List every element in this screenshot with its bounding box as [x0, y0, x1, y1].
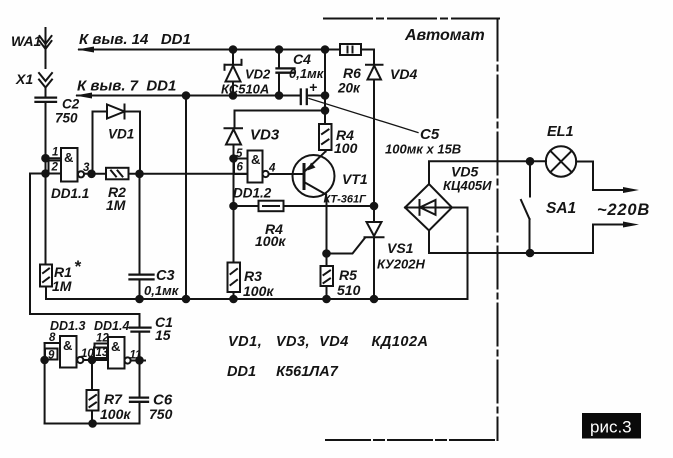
- svg-text:R5: R5: [339, 267, 357, 283]
- thyristor VS1: [327, 206, 384, 299]
- wire bridge right to x467: [452, 207, 468, 209]
- pin 6 box: [234, 159, 248, 175]
- wire DD1.4 out to C1/C6 vertical: [131, 360, 145, 362]
- svg-text:КТ-361Г: КТ-361Г: [324, 194, 368, 206]
- svg-text:рис.3: рис.3: [590, 418, 632, 437]
- wire DD1.3 out to DD1.4 in: [83, 359, 108, 361]
- resistor R2: [106, 168, 129, 180]
- svg-text:DD1.3: DD1.3: [50, 319, 85, 333]
- wire left branch to C1: [30, 313, 140, 315]
- wire C5 to node: [307, 95, 325, 97]
- svg-text:C4: C4: [293, 51, 311, 67]
- svg-text:КУ202Н: КУ202Н: [377, 257, 425, 272]
- svg-text:DD1.4: DD1.4: [94, 319, 129, 333]
- pin 1 wire: [46, 157, 62, 159]
- svg-text:R6: R6: [343, 65, 361, 81]
- node pin9 junction: [41, 357, 48, 364]
- svg-text:100мк x 15В: 100мк x 15В: [385, 142, 461, 157]
- svg-text:12: 12: [96, 333, 109, 345]
- svg-text:&: &: [111, 339, 120, 354]
- wire EL1 to upper 220V arrow: [576, 162, 625, 191]
- svg-text:510: 510: [337, 282, 361, 298]
- svg-text:+: +: [309, 79, 317, 95]
- label VT1 КТ361Г: [324, 171, 368, 206]
- pin 13 box: [94, 348, 107, 359]
- svg-text:8: 8: [49, 332, 56, 344]
- resistor R5: [321, 266, 334, 286]
- leader line C5: [309, 99, 418, 133]
- wire bridge top to EL1: [429, 161, 546, 184]
- pin 8 wire: [45, 342, 60, 344]
- svg-text:X1: X1: [15, 71, 33, 87]
- wire R4k left: [234, 205, 259, 207]
- pin 5 stub: [234, 158, 248, 160]
- label R4 100к: [255, 221, 286, 249]
- label R1 * 1М: [52, 257, 82, 294]
- svg-text:~220В: ~220В: [597, 201, 650, 219]
- node R4k left: [230, 203, 237, 210]
- node x186-bottom: [183, 296, 190, 303]
- svg-text:C3: C3: [156, 268, 175, 284]
- svg-text:100к: 100к: [255, 233, 286, 249]
- svg-text:C2: C2: [62, 97, 80, 112]
- svg-text:&: &: [251, 152, 260, 167]
- svg-text:0,1мк: 0,1мк: [289, 66, 325, 81]
- wire VD3 to DD1.2 pin5 and down: [233, 159, 235, 263]
- label R7 100к: [100, 391, 131, 422]
- svg-text:1М: 1М: [106, 197, 126, 213]
- svg-text:DD1.2: DD1.2: [233, 186, 272, 201]
- svg-text:EL1: EL1: [547, 124, 574, 140]
- wire x467 vertical: [467, 208, 469, 300]
- svg-text:R3: R3: [244, 268, 262, 284]
- wire R5 leads: [326, 254, 328, 267]
- node R7 top tap: [89, 357, 96, 364]
- svg-text:R7: R7: [104, 391, 123, 407]
- svg-text:2: 2: [51, 162, 59, 174]
- svg-text:4: 4: [268, 163, 276, 175]
- wire bottom of generator block: [45, 423, 140, 425]
- capacitor C1: [130, 314, 151, 397]
- label C5 value 100мк x 15В: [385, 126, 461, 157]
- node: pin2 junction: [42, 170, 49, 177]
- capacitor C4: [277, 50, 295, 96]
- label R5 510: [337, 267, 361, 298]
- svg-text:750: 750: [149, 406, 173, 422]
- antenna WA1: [40, 28, 52, 68]
- label R4 100: [334, 127, 358, 156]
- svg-text:SA1: SA1: [546, 200, 576, 217]
- switch SA1: [521, 161, 530, 253]
- wire R7 leads: [91, 360, 93, 390]
- svg-text:15: 15: [155, 327, 171, 343]
- node R3-bottom: [230, 296, 237, 303]
- label R3 100к: [243, 268, 274, 299]
- svg-text:0,1мк: 0,1мк: [144, 283, 180, 298]
- wire bottom rail: [46, 298, 468, 300]
- node C5 right: [322, 92, 329, 99]
- node rail2-VD2: [230, 92, 237, 99]
- svg-text:DD1 К561ЛА7: DD1 К561ЛА7: [227, 364, 339, 380]
- svg-text:13: 13: [96, 347, 109, 359]
- svg-text:VD1: VD1: [108, 127, 134, 142]
- gate DD1.1: [61, 148, 84, 182]
- capacitor C3: [130, 174, 154, 299]
- label VD5 КЦ405И: [443, 164, 492, 194]
- wire X1 to C2: [45, 88, 47, 97]
- lamp EL1: [546, 146, 576, 176]
- wire lower 220V arrow: [593, 225, 625, 254]
- svg-text:К выв. 7 DD1: К выв. 7 DD1: [77, 78, 176, 95]
- arrow upper 220V: [623, 187, 639, 193]
- node R5-bottom: [323, 296, 330, 303]
- wire rail К выв.14 DD1: [77, 47, 340, 53]
- node anode: [371, 203, 378, 210]
- gate DD1.3: [60, 336, 83, 368]
- svg-text:100к: 100к: [243, 283, 274, 299]
- connector X1: [39, 73, 52, 88]
- transistor VT1: [293, 150, 335, 254]
- svg-text:VD2: VD2: [245, 67, 271, 82]
- bridge rectifier VD5: [405, 184, 452, 231]
- svg-text:&: &: [63, 338, 72, 353]
- node R7 bottom: [89, 420, 96, 427]
- svg-text:6: 6: [237, 162, 244, 174]
- zener diode VD2: [225, 50, 242, 96]
- label C4 0,1мк: [289, 51, 325, 81]
- node C3-bottom: [136, 296, 143, 303]
- pin 12 wire: [95, 344, 109, 348]
- resistor R6: [340, 44, 361, 55]
- node rail1-VD2: [230, 46, 237, 53]
- node rail1-C4: [276, 46, 283, 53]
- node pin5: [230, 155, 237, 162]
- svg-text:VD4: VD4: [390, 66, 417, 82]
- node rail2-x186: [183, 92, 190, 99]
- svg-text:1М: 1М: [52, 278, 72, 294]
- resistor R7: [87, 390, 99, 411]
- wire bridge bottom to y253: [429, 231, 593, 254]
- label C6 750: [149, 392, 173, 423]
- label C3 0,1мк: [144, 268, 180, 298]
- resistor R4 100: [319, 124, 332, 150]
- svg-text:9: 9: [48, 350, 55, 362]
- svg-text:750: 750: [55, 111, 78, 126]
- figure label рис.3: [582, 413, 641, 439]
- capacitor C5 (electrolytic, in series): [301, 90, 307, 105]
- dash-dot border of Автомат block (top): [324, 18, 499, 20]
- gate DD1.4: [108, 337, 131, 369]
- label R2 1М: [106, 184, 126, 213]
- svg-text:WA1: WA1: [11, 33, 42, 49]
- wire DD1.1 pin2 left and down: [30, 174, 61, 315]
- diode VD4: [366, 65, 383, 80]
- wire vertical x325 rail1 to R4: [324, 50, 326, 125]
- node SA1 top: [527, 158, 534, 165]
- dash-dot border (right): [497, 19, 499, 441]
- node SA1 bottom: [527, 250, 534, 257]
- wire vertical x186: [185, 96, 187, 300]
- svg-text:20к: 20к: [337, 81, 361, 96]
- wire C2 down to DD1.1 inputs and R1: [45, 102, 47, 265]
- diode VD1: [93, 105, 141, 174]
- capacitor C2: [36, 98, 57, 102]
- resistor R4 100к (horizontal): [259, 201, 284, 212]
- node DD1.1 out / VD1 left: [88, 171, 95, 178]
- svg-text:VD3: VD3: [250, 127, 280, 144]
- node output 11: [136, 357, 143, 364]
- svg-text:100: 100: [334, 140, 358, 156]
- pin 9 box: [45, 349, 58, 360]
- wire R2 to DD1.2 pin6 (long): [129, 173, 248, 175]
- node collector/gate: [323, 250, 330, 257]
- wire R3 bottom: [233, 292, 235, 299]
- svg-text:КЦ405И: КЦ405И: [443, 178, 492, 193]
- capacitor C6: [130, 398, 148, 424]
- svg-text:Автомат: Автомат: [404, 27, 485, 44]
- node VS1-bottom: [371, 296, 378, 303]
- pin 2 box: [49, 161, 62, 174]
- resistor R1: [40, 265, 52, 287]
- wire rail К выв.7 DD1: [75, 93, 300, 99]
- svg-text:C5: C5: [420, 126, 440, 143]
- diode VD3: [225, 128, 243, 158]
- node rail2-C4: [276, 92, 283, 99]
- wire pins 8/9 left vertical: [44, 343, 46, 424]
- wire R1 to bottom rail: [45, 287, 47, 300]
- svg-text:К выв. 14 DD1: К выв. 14 DD1: [79, 31, 191, 48]
- wire y110 to VD3: [235, 111, 326, 129]
- svg-text:100к: 100к: [100, 406, 131, 422]
- label R6 20к: [337, 65, 361, 96]
- node x325-y110: [322, 107, 329, 114]
- wire DD1.2 output to VT1 base: [269, 173, 303, 175]
- label C1 15: [155, 314, 173, 343]
- node R2/VD1/C3: [136, 171, 143, 178]
- svg-text:VT1: VT1: [342, 171, 368, 187]
- wire R6 to VD4: [361, 50, 374, 65]
- svg-text:КС510А: КС510А: [221, 82, 269, 97]
- svg-text:VD1, VD3, VD4 КД102А: VD1, VD3, VD4 КД102А: [228, 334, 429, 350]
- svg-text:&: &: [64, 150, 73, 165]
- label VD2 КС510А: [221, 67, 271, 97]
- dash-dot border (bottom): [326, 439, 498, 441]
- wire VD4 to anode node: [373, 80, 375, 207]
- label C2 value 750: [55, 97, 80, 126]
- gate DD1.2: [248, 151, 269, 183]
- label VS1 КУ202Н: [377, 240, 425, 272]
- wire R4k right to anode node: [284, 205, 375, 207]
- resistor R3: [228, 263, 241, 293]
- svg-text:DD1.1: DD1.1: [51, 186, 89, 201]
- node rail1-x325: [322, 46, 329, 53]
- arrow lower 220V: [623, 222, 639, 228]
- wire DD1.1 output to R2 and on to DD1.2 pin6: [84, 173, 106, 175]
- svg-text:VS1: VS1: [387, 240, 414, 256]
- node: pin1 junction: [42, 155, 49, 162]
- svg-text:1: 1: [52, 147, 58, 159]
